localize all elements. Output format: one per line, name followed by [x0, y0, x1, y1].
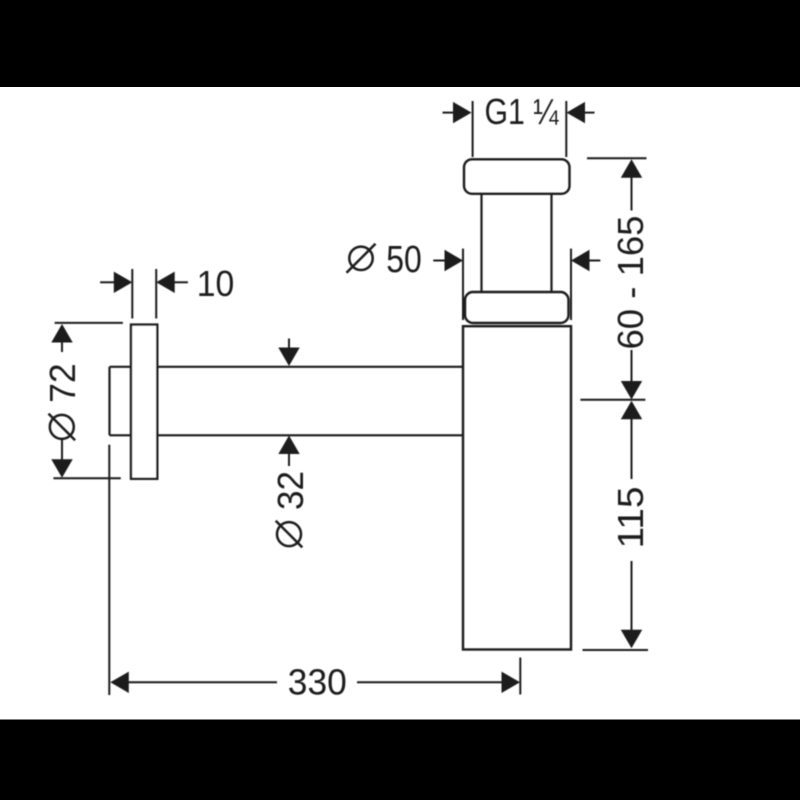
dim G1 1/4 extension line left: [472, 101, 474, 157]
label diameter 32 (rotated): [270, 471, 311, 547]
dim O50 right arrow tail: [588, 260, 601, 262]
dim 330 right line: [357, 681, 504, 683]
dim 330 right arrowhead: [502, 672, 521, 693]
dim O32 down arrowhead: [278, 348, 299, 367]
top black bar: [0, 0, 800, 87]
dim 330 left extension line: [108, 445, 110, 695]
dim 60-165 top extension line: [587, 157, 647, 159]
dim O32 lower leader: [288, 453, 290, 467]
neck pipe: [482, 194, 552, 292]
svg-text:115: 115: [610, 487, 651, 549]
dim 330 right extension line: [519, 658, 521, 695]
svg-text:72: 72: [42, 363, 83, 402]
dim O50 left arrow tail: [433, 260, 446, 262]
svg-text:330: 330: [288, 661, 347, 702]
dim O72 top extension line: [55, 322, 123, 324]
dim O72 lower leader: [61, 440, 63, 461]
dim G1 1/4 left arrowhead: [453, 102, 472, 123]
dim O72 bottom extension line: [53, 477, 120, 479]
label diameter 72 (rotated): [42, 363, 83, 440]
dim G1 1/4 right arrow tail: [584, 112, 595, 114]
svg-text:G1 ¼: G1 ¼: [485, 91, 560, 132]
dim 10 right arrow tail: [173, 281, 188, 283]
pipe centerline tick: [580, 399, 645, 401]
bottom black bar: [0, 720, 800, 800]
dim O72 down arrowhead: [51, 459, 72, 478]
dim 115 up arrowhead: [621, 401, 642, 420]
dim O32 up arrowhead: [278, 436, 299, 455]
dim 330 left line: [127, 681, 277, 683]
dim O72 up arrowhead: [51, 324, 72, 343]
dim O50 extension line left: [462, 249, 464, 320]
trap body cup: [463, 326, 571, 649]
dim O50 extension line right: [570, 249, 572, 320]
dim 115 down arrowhead: [621, 630, 642, 649]
svg-text:60 - 165: 60 - 165: [610, 216, 651, 350]
dim 10 left arrowhead: [114, 272, 133, 293]
horizontal pipe outlet (Ø32): [110, 367, 464, 436]
dim 60-165 up arrowhead: [621, 159, 642, 178]
dim 330 left arrowhead: [110, 672, 129, 693]
dim G1 1/4 right arrowhead: [567, 102, 586, 123]
dim 60-165 lower leader: [631, 350, 633, 383]
svg-text:10: 10: [197, 263, 235, 304]
dim 115 upper leader: [631, 418, 633, 479]
dim G1 1/4 left arrow tail: [443, 112, 456, 114]
svg-text:32: 32: [270, 471, 311, 510]
wall flange (escutcheon): [131, 325, 157, 479]
dim 10 extension line right: [155, 269, 157, 319]
dim 10 left arrow tail: [100, 281, 116, 283]
dim 10 right arrowhead: [156, 272, 175, 293]
svg-text:50: 50: [386, 239, 422, 281]
dim O72 upper leader: [61, 341, 63, 352]
dim O32 upper leader: [288, 339, 290, 351]
label 60 - 165 (rotated): [610, 216, 651, 350]
dim O50 left arrowhead: [445, 250, 464, 271]
label 115 (rotated): [610, 487, 651, 549]
collar flange (Ø50): [465, 292, 569, 323]
dim O50 right arrowhead: [571, 250, 590, 271]
dim 10 extension line left: [131, 269, 133, 319]
dim 60-165 upper leader: [631, 176, 633, 210]
label diameter 50: [347, 239, 422, 281]
dim 60-165 down arrowhead: [621, 381, 642, 400]
dim 115 lower leader: [631, 561, 633, 632]
dim 115 bottom extension line: [583, 649, 649, 651]
top cap nut: [464, 159, 570, 194]
dim G1 1/4 extension line right: [565, 101, 567, 157]
